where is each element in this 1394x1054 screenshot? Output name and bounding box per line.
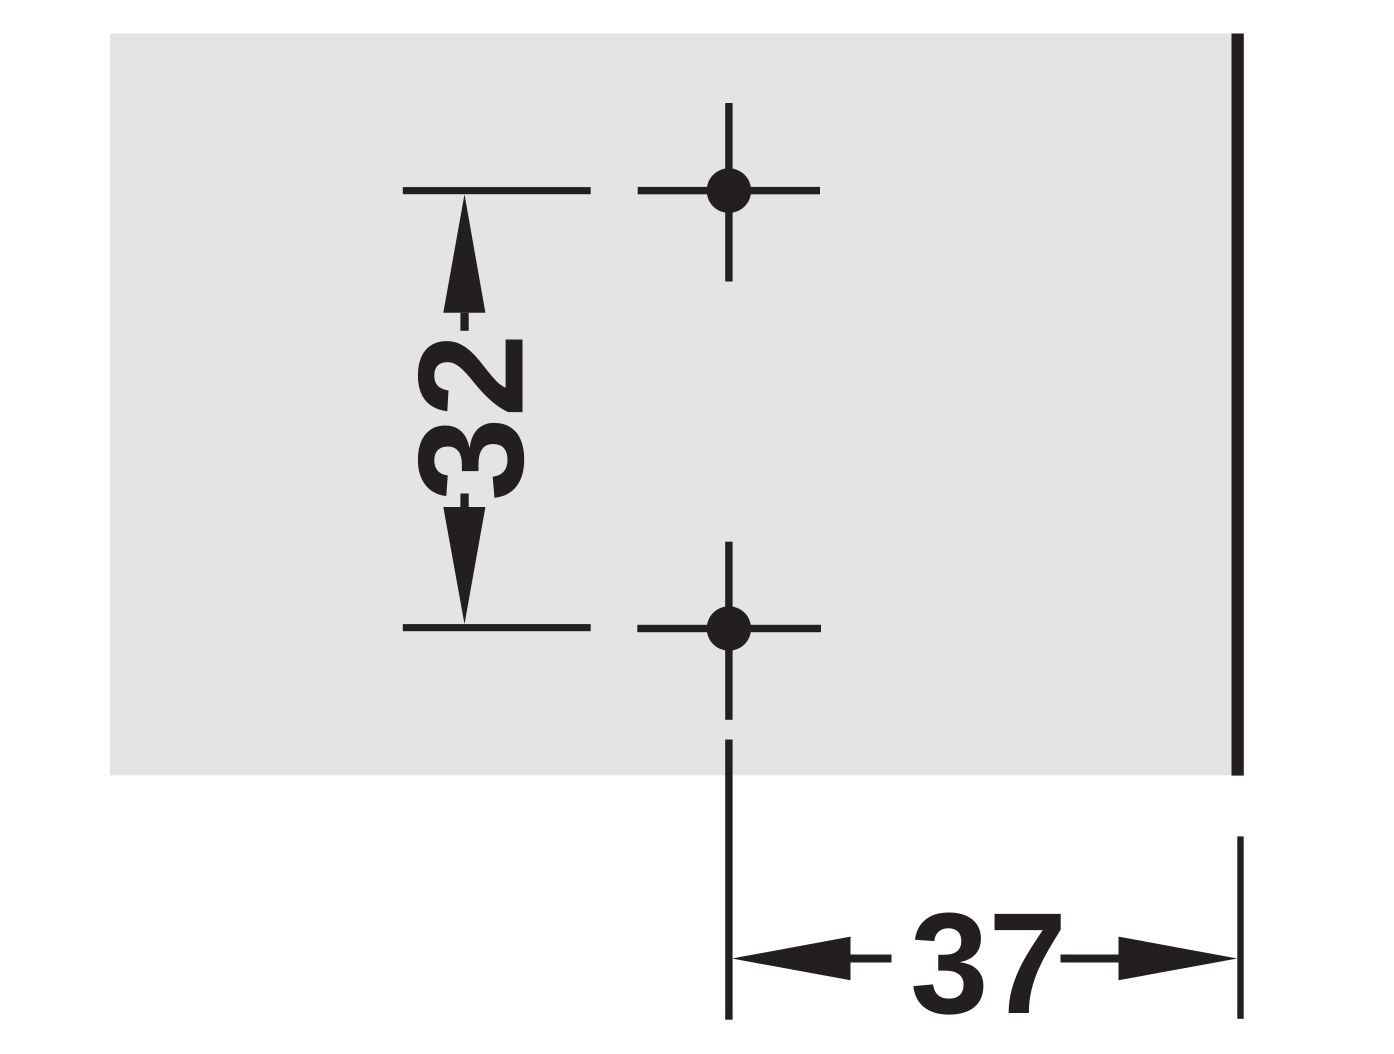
svg-text:32: 32 bbox=[387, 334, 554, 502]
svg-text:37: 37 bbox=[910, 884, 1067, 1045]
